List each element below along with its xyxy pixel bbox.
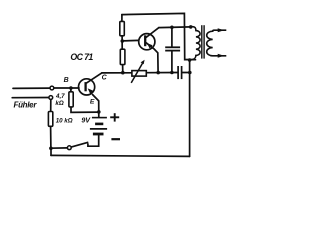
svg-text:9V: 9V [81, 116, 91, 125]
svg-text:Fühler: Fühler [14, 100, 38, 109]
svg-text:C: C [102, 75, 108, 82]
svg-text:4,7: 4,7 [55, 93, 65, 100]
svg-text:OC 71: OC 71 [70, 52, 93, 62]
svg-text:kΩ: kΩ [55, 100, 63, 107]
svg-text:B: B [64, 77, 69, 84]
svg-text:10 kΩ: 10 kΩ [56, 118, 73, 125]
svg-text:E: E [90, 98, 95, 105]
